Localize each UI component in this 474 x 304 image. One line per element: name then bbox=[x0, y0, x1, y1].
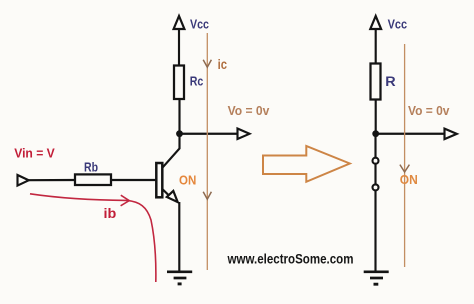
resistor Rc bbox=[174, 66, 184, 100]
switch contact bottom bbox=[373, 184, 379, 190]
svg-text:Vo = 0v: Vo = 0v bbox=[408, 103, 450, 118]
wire node to switch bbox=[374, 134, 376, 158]
Vcc supply arrow left bbox=[174, 16, 185, 29]
switch contact top bbox=[373, 158, 379, 164]
wire Vcc to Rc bbox=[178, 29, 180, 66]
svg-text:ic: ic bbox=[218, 57, 228, 72]
wire base bbox=[111, 179, 156, 181]
resistor Rb bbox=[75, 174, 111, 185]
svg-text:ib: ib bbox=[104, 205, 117, 221]
ground left bbox=[167, 270, 192, 273]
svg-text:R: R bbox=[385, 74, 396, 89]
transistor Q1 base bar bbox=[156, 163, 162, 197]
wire emitter down bbox=[178, 202, 180, 272]
base current path ib bbox=[30, 194, 156, 282]
output terminal arrow left bbox=[238, 129, 250, 140]
transistor emitter with arrow bbox=[162, 189, 170, 196]
svg-text:ON: ON bbox=[179, 173, 196, 188]
current path ic line left bbox=[206, 33, 208, 270]
svg-text:Vin = V: Vin = V bbox=[14, 145, 55, 160]
wire R to node bbox=[375, 100, 377, 135]
svg-text:www.electroSome.com: www.electroSome.com bbox=[227, 250, 354, 266]
Vcc supply arrow right bbox=[370, 16, 381, 29]
svg-text:Rc: Rc bbox=[190, 73, 204, 88]
wire output right bbox=[376, 133, 445, 135]
svg-text:Vcc: Vcc bbox=[190, 16, 209, 31]
svg-text:Rb: Rb bbox=[84, 159, 98, 174]
svg-text:Vcc: Vcc bbox=[388, 16, 408, 31]
wire collector diagonal bbox=[162, 134, 179, 168]
output terminal arrow right bbox=[445, 129, 457, 140]
wire switch to ground bbox=[374, 191, 376, 272]
wire Rc to collector node bbox=[178, 99, 180, 134]
wire Vcc to R bbox=[375, 29, 377, 64]
wire output left bbox=[180, 133, 238, 135]
current path line right bbox=[404, 44, 406, 267]
ib arrowhead bbox=[121, 195, 130, 206]
ground right bbox=[364, 270, 389, 273]
wire input bbox=[29, 179, 76, 181]
node collector left bbox=[176, 130, 183, 137]
input terminal arrow bbox=[18, 175, 29, 186]
current arrowhead right bbox=[400, 165, 410, 172]
switch closed wire bbox=[374, 164, 376, 184]
resistor R bbox=[371, 64, 381, 100]
node right bbox=[372, 130, 379, 137]
svg-text:Vo = 0v: Vo = 0v bbox=[228, 103, 271, 118]
ic arrowhead lower bbox=[203, 192, 211, 199]
block arrow bbox=[263, 146, 350, 182]
svg-text:ON: ON bbox=[400, 172, 418, 187]
ic arrowhead upper bbox=[203, 60, 211, 67]
